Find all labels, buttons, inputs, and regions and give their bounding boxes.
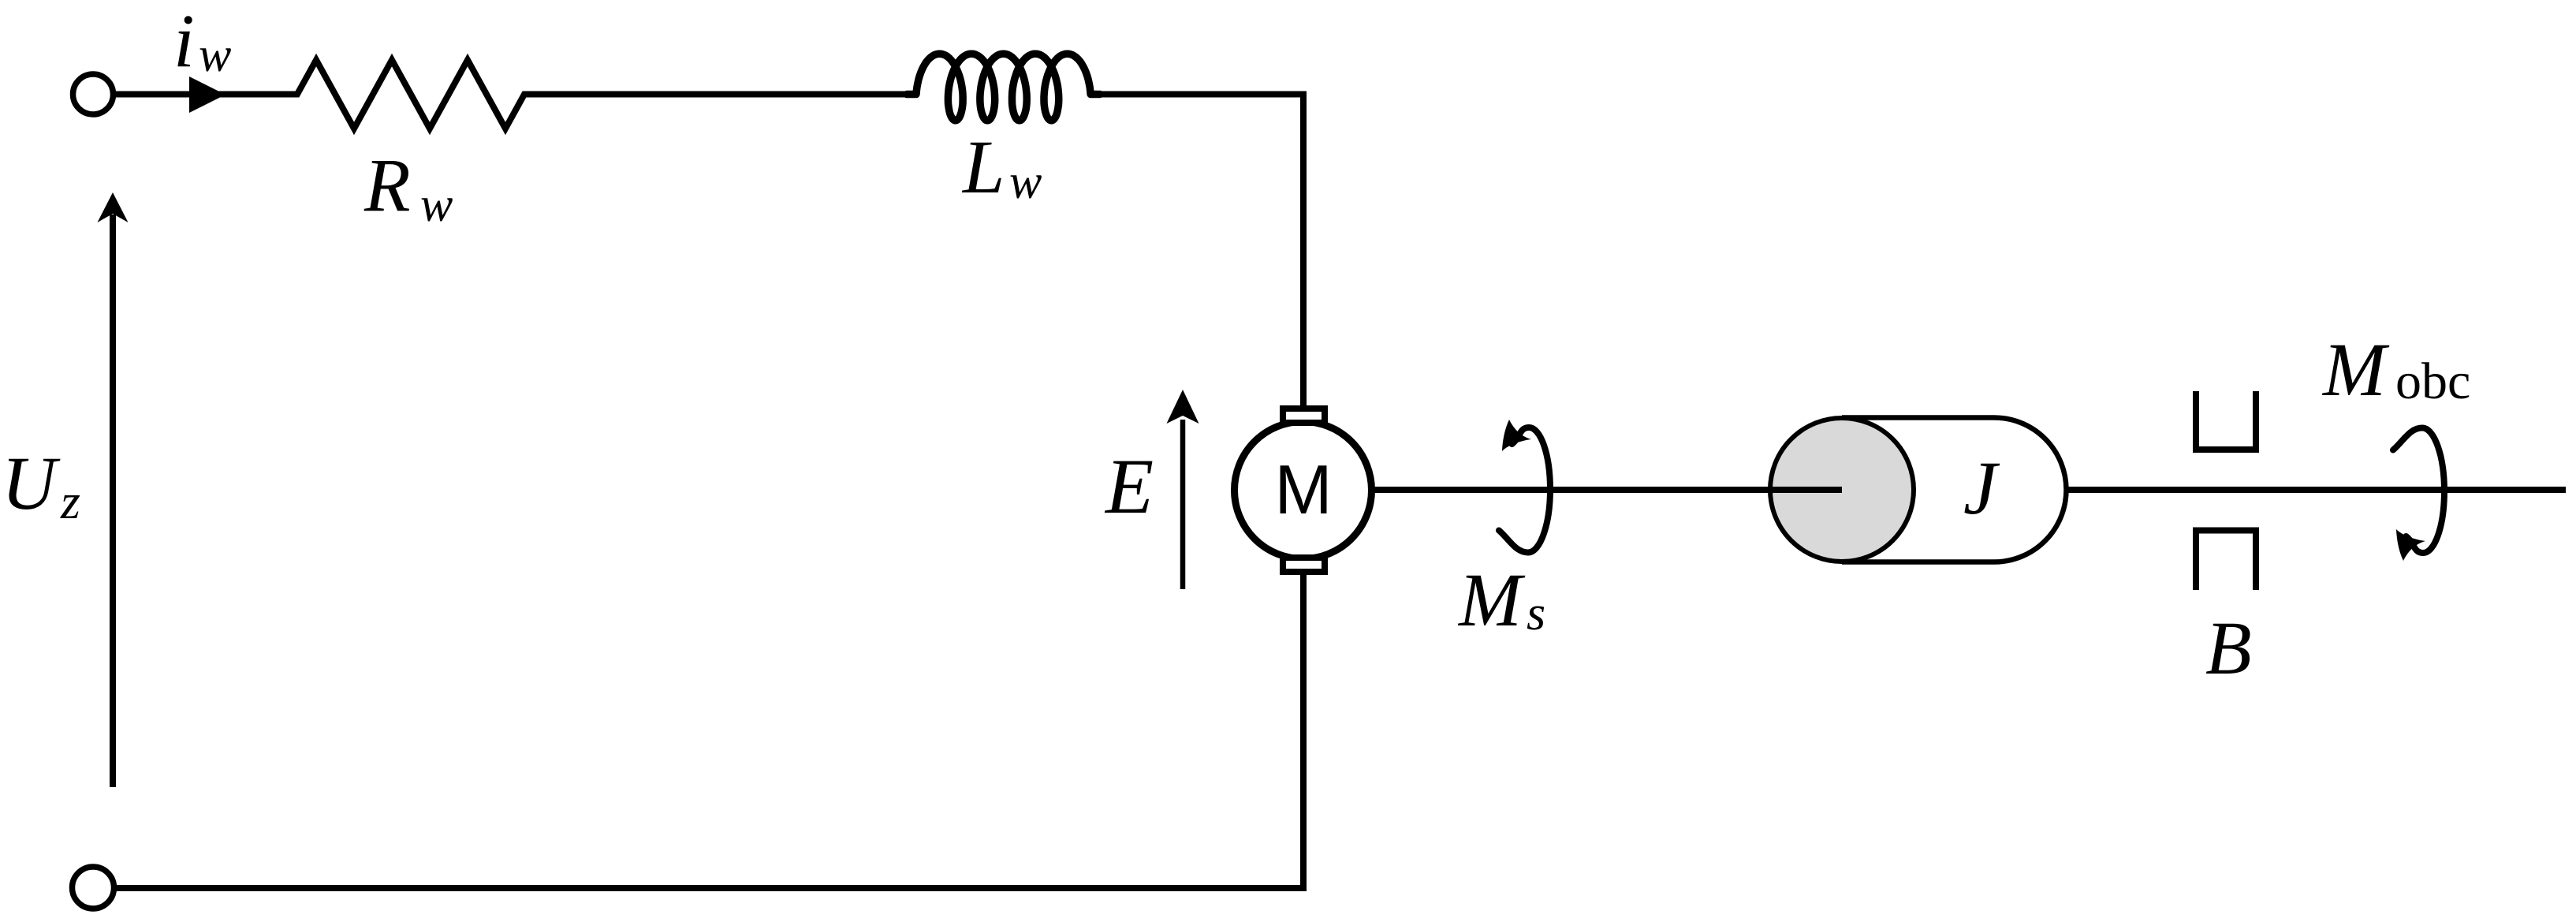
svg-text:L: L <box>961 125 1005 209</box>
svg-text:R: R <box>363 143 411 227</box>
svg-text:M: M <box>1274 450 1332 528</box>
svg-text:w: w <box>420 178 453 232</box>
svg-text:w: w <box>199 28 231 82</box>
svg-text:i: i <box>173 0 195 83</box>
svg-text:J: J <box>1963 446 2000 530</box>
svg-text:B: B <box>2205 606 2252 690</box>
svg-text:obc: obc <box>2395 353 2470 410</box>
svg-text:w: w <box>1009 155 1042 209</box>
svg-text:U: U <box>2 441 61 525</box>
svg-text:z: z <box>60 473 80 529</box>
svg-text:M: M <box>2321 327 2390 412</box>
svg-text:M: M <box>1457 558 1526 642</box>
svg-text:E: E <box>1104 442 1154 530</box>
svg-text:s: s <box>1527 587 1545 640</box>
